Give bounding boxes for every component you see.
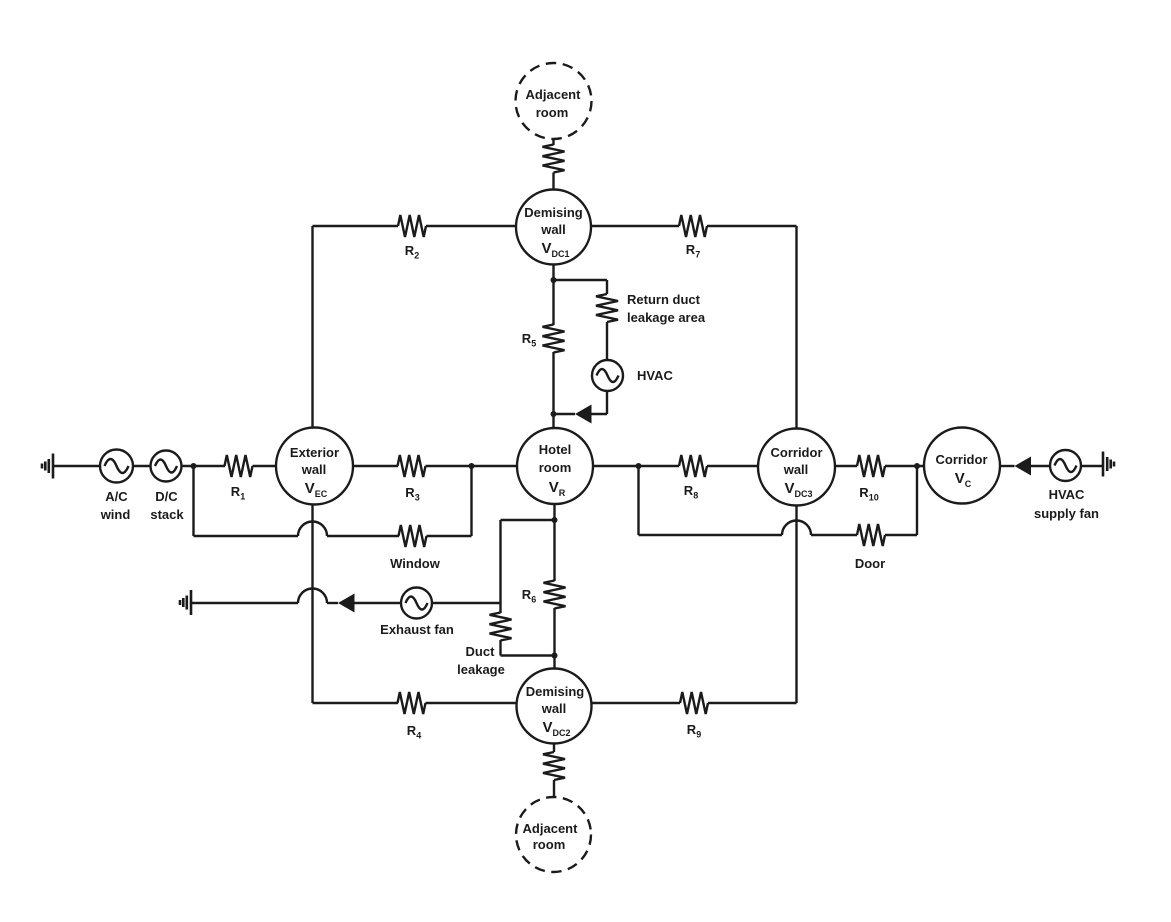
node H (above demising wall 2) bbox=[552, 653, 558, 659]
svg-text:room: room bbox=[533, 837, 566, 852]
wire bbox=[591, 225, 679, 227]
node A (after stack source) bbox=[191, 463, 197, 469]
node B (hotel-room left) bbox=[469, 463, 475, 469]
resistor Duct leakage bbox=[490, 613, 512, 641]
wire bbox=[795, 506, 797, 704]
svg-text:room: room bbox=[539, 460, 572, 475]
wire bbox=[707, 225, 797, 227]
wire bbox=[592, 702, 681, 704]
svg-text:Corridor: Corridor bbox=[936, 452, 988, 467]
resistor Door bbox=[857, 524, 885, 546]
label Corridor wall VDC3 bbox=[771, 445, 823, 499]
wire bbox=[327, 602, 338, 604]
svg-text:HVAC: HVAC bbox=[1049, 487, 1085, 502]
resistor R10 bbox=[857, 455, 885, 477]
wire bbox=[313, 225, 399, 227]
wire bbox=[835, 465, 857, 467]
svg-text:wall: wall bbox=[541, 701, 567, 716]
wire bbox=[194, 535, 299, 537]
wire bbox=[553, 505, 555, 582]
svg-text:supply fan: supply fan bbox=[1034, 506, 1099, 521]
resistor R4 bbox=[398, 692, 426, 714]
wire bbox=[311, 505, 313, 704]
node E (below demising wall 1) bbox=[551, 277, 557, 283]
svg-text:VR: VR bbox=[549, 479, 566, 498]
wire bbox=[1081, 465, 1103, 467]
svg-text:Demising: Demising bbox=[526, 684, 585, 699]
svg-text:R6: R6 bbox=[522, 587, 536, 605]
svg-text:Demising: Demising bbox=[524, 205, 583, 220]
label HVAC supply fan bbox=[1034, 487, 1099, 521]
svg-text:room: room bbox=[536, 105, 569, 120]
node circle: Exterior wall VEC bbox=[276, 428, 353, 505]
wire bbox=[553, 780, 555, 797]
resistor R9 bbox=[680, 692, 708, 714]
label Demising wall VDC1 bbox=[524, 205, 583, 259]
svg-text:Door: Door bbox=[855, 556, 885, 571]
wire bbox=[606, 391, 608, 414]
svg-text:R10: R10 bbox=[859, 485, 878, 503]
svg-text:wall: wall bbox=[540, 222, 566, 237]
node D (corridor left) bbox=[914, 463, 920, 469]
ground (A/C wind source) bbox=[42, 454, 53, 479]
wire bbox=[253, 465, 277, 467]
node F (above hotel room) bbox=[551, 411, 557, 417]
resistor R3 bbox=[398, 455, 426, 477]
wire bbox=[552, 265, 554, 326]
resistor (adjacent-room/demising-wall leakage, top) bbox=[543, 145, 565, 173]
svg-text:R2: R2 bbox=[405, 243, 419, 261]
source HVAC (return) bbox=[592, 360, 623, 391]
wire bbox=[553, 744, 555, 753]
wire bbox=[133, 465, 151, 467]
label A/C wind bbox=[100, 489, 131, 522]
svg-text:R9: R9 bbox=[687, 722, 701, 740]
svg-text:Hotel: Hotel bbox=[539, 442, 572, 457]
ground (HVAC supply fan) bbox=[1103, 452, 1114, 477]
svg-text:Duct: Duct bbox=[466, 644, 496, 659]
wire bbox=[554, 413, 576, 415]
wire bbox=[552, 173, 554, 190]
wire bbox=[637, 466, 639, 535]
wire bbox=[53, 465, 100, 467]
source Exhaust fan bbox=[401, 588, 432, 619]
node circle: Hotel room VR bbox=[517, 428, 593, 504]
svg-text:VDC2: VDC2 bbox=[542, 719, 570, 738]
svg-text:VC: VC bbox=[955, 470, 972, 489]
wire bbox=[501, 654, 555, 656]
wire bbox=[552, 352, 554, 428]
arrow into Corridor (HVAC supply flow) bbox=[1015, 457, 1032, 476]
source D/C stack bbox=[151, 451, 182, 482]
wire bbox=[313, 702, 399, 704]
arrow into hotel-room node (HVAC return flow) bbox=[575, 405, 592, 424]
wire bbox=[707, 465, 758, 467]
svg-text:VEC: VEC bbox=[305, 480, 328, 499]
label Adjacent room (top) bbox=[526, 87, 582, 120]
node circle: Corridor VC bbox=[924, 428, 1000, 504]
wire bbox=[499, 640, 501, 656]
wire bbox=[885, 534, 917, 536]
label Adjacent room (bottom) bbox=[523, 821, 579, 852]
svg-text:wall: wall bbox=[783, 462, 809, 477]
resistor R6 bbox=[544, 581, 566, 609]
svg-text:R3: R3 bbox=[405, 485, 419, 503]
label D/C stack bbox=[150, 489, 184, 522]
ground (exhaust fan) bbox=[180, 590, 191, 615]
wire jump over exterior-wall column (exhaust row) bbox=[298, 589, 327, 604]
svg-text:A/C: A/C bbox=[105, 489, 128, 504]
wire bbox=[593, 465, 679, 467]
svg-text:stack: stack bbox=[150, 507, 184, 522]
wire bbox=[353, 465, 398, 467]
node circle: Demising wall VDC2 bbox=[517, 669, 592, 744]
svg-text:Exterior: Exterior bbox=[290, 445, 339, 460]
label Return duct leakage area bbox=[627, 292, 706, 325]
wire bbox=[427, 535, 472, 537]
wire bbox=[1031, 465, 1050, 467]
wire bbox=[553, 608, 555, 669]
wire bbox=[795, 226, 797, 429]
wire bbox=[191, 602, 298, 604]
svg-text:Return duct: Return duct bbox=[627, 292, 701, 307]
resistor (demising-wall/adjacent-room leakage, bottom) bbox=[543, 752, 565, 780]
resistor R8 bbox=[679, 455, 707, 477]
source HVAC supply fan bbox=[1050, 450, 1081, 481]
svg-text:R4: R4 bbox=[407, 723, 421, 741]
node C (hotel-room right) bbox=[636, 463, 642, 469]
wire bbox=[606, 280, 608, 294]
node circle (dashed): Adjacent room (top) bbox=[516, 63, 592, 139]
wire bbox=[811, 534, 857, 536]
wire bbox=[708, 702, 797, 704]
label Corridor VC bbox=[936, 452, 988, 489]
svg-text:R5: R5 bbox=[522, 331, 536, 349]
wire jump over corridor-wall column (door row) bbox=[782, 521, 811, 536]
resistor R7 bbox=[679, 215, 707, 237]
resistor R5 bbox=[543, 325, 565, 353]
wire bbox=[1000, 465, 1015, 467]
source A/C wind bbox=[100, 450, 133, 483]
resistor R2 bbox=[398, 215, 426, 237]
node G (below hotel room) bbox=[552, 517, 558, 523]
arrow out of room (exhaust flow) bbox=[338, 594, 355, 613]
node circle: Corridor wall VDC3 bbox=[758, 429, 835, 506]
svg-text:D/C: D/C bbox=[155, 489, 178, 504]
wire bbox=[552, 139, 554, 145]
wire bbox=[591, 413, 608, 415]
svg-text:VDC3: VDC3 bbox=[784, 480, 812, 499]
svg-text:Corridor: Corridor bbox=[771, 445, 823, 460]
resistor R1 bbox=[225, 455, 253, 477]
label Exterior wall VEC bbox=[290, 445, 339, 499]
label Duct leakage bbox=[457, 644, 505, 677]
svg-text:leakage: leakage bbox=[457, 662, 505, 677]
wire bbox=[182, 465, 226, 467]
wire bbox=[192, 466, 194, 536]
wire bbox=[311, 226, 313, 428]
svg-text:HVAC: HVAC bbox=[637, 368, 673, 383]
wire bbox=[432, 602, 501, 604]
wire bbox=[639, 534, 783, 536]
label Hotel room VR bbox=[539, 442, 572, 498]
svg-text:leakage area: leakage area bbox=[627, 310, 706, 325]
svg-text:Adjacent: Adjacent bbox=[526, 87, 582, 102]
wire bbox=[885, 465, 924, 467]
wire bbox=[501, 519, 555, 521]
wire bbox=[426, 702, 517, 704]
svg-text:VDC1: VDC1 bbox=[541, 240, 569, 259]
svg-text:wind: wind bbox=[100, 507, 131, 522]
wire jump over exterior-wall column (window row) bbox=[298, 522, 327, 537]
node circle: Demising wall VDC1 bbox=[516, 190, 591, 265]
wire bbox=[355, 602, 402, 604]
wire bbox=[606, 322, 608, 360]
wire bbox=[916, 466, 918, 535]
resistor Return duct leakage area bbox=[596, 294, 618, 322]
svg-text:R8: R8 bbox=[684, 483, 698, 501]
svg-text:Adjacent: Adjacent bbox=[523, 821, 579, 836]
wire bbox=[426, 465, 518, 467]
wire bbox=[327, 535, 399, 537]
node circle (dashed): Adjacent room (bottom) bbox=[516, 797, 591, 872]
resistor Window bbox=[399, 525, 427, 547]
wire bbox=[426, 225, 516, 227]
label Demising wall VDC2 bbox=[526, 684, 585, 738]
svg-text:R7: R7 bbox=[686, 242, 700, 260]
svg-text:Exhaust fan: Exhaust fan bbox=[380, 622, 454, 637]
svg-text:wall: wall bbox=[301, 462, 327, 477]
svg-text:Window: Window bbox=[390, 556, 441, 571]
wire bbox=[470, 466, 472, 536]
svg-text:R1: R1 bbox=[231, 484, 245, 502]
wire bbox=[554, 279, 608, 281]
wire bbox=[499, 520, 501, 613]
